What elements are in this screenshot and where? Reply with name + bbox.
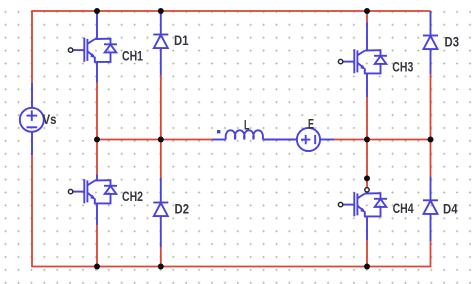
svg-text:E: E: [308, 117, 314, 132]
svg-text:CH3: CH3: [392, 60, 413, 75]
svg-text:Vs: Vs: [43, 112, 57, 127]
svg-text:CH4: CH4: [393, 201, 414, 216]
svg-text:L: L: [244, 118, 250, 133]
svg-text:D1: D1: [174, 33, 189, 48]
svg-text:CH2: CH2: [122, 189, 143, 204]
svg-text:D4: D4: [443, 202, 458, 217]
svg-text:CH1: CH1: [122, 49, 143, 64]
svg-text:D2: D2: [175, 202, 190, 217]
svg-text:D3: D3: [445, 35, 460, 50]
